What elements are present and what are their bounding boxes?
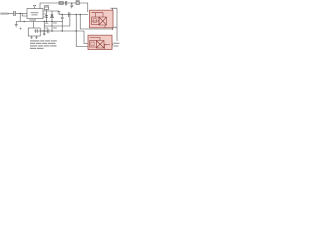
label below U1 xyxy=(30,19,37,20)
wire C7 down xyxy=(44,17,70,26)
wire drop x44 xyxy=(43,22,45,36)
rectifier module xyxy=(92,17,100,25)
node J14 xyxy=(44,21,45,22)
node J12 xyxy=(71,2,72,3)
resistor R2 xyxy=(76,1,79,4)
wire out bottom xyxy=(104,44,113,46)
node J6 xyxy=(76,14,77,15)
transformer box xyxy=(28,28,40,36)
label pin ticks xyxy=(45,23,48,24)
capacitor C9 xyxy=(35,36,37,38)
wire bottom bus xyxy=(16,21,63,23)
capacitor C3 xyxy=(65,1,67,5)
node J1 xyxy=(20,13,21,14)
node J9 xyxy=(112,44,113,45)
node J2 xyxy=(24,21,25,22)
diode D1 xyxy=(51,11,54,22)
capacitor C4 xyxy=(70,3,73,8)
wire box top xyxy=(33,22,35,29)
wire to IC xyxy=(16,13,27,15)
wire drop s1 xyxy=(104,25,106,28)
wire feedback xyxy=(40,31,88,44)
label vout xyxy=(113,43,119,44)
diode D2 xyxy=(59,2,63,5)
wire out drop xyxy=(111,41,113,49)
inner wires 2 xyxy=(90,38,107,45)
node J13 xyxy=(51,30,52,31)
wire AC lower xyxy=(22,14,27,17)
wire stub top box xyxy=(112,8,114,10)
node J5 xyxy=(62,14,63,15)
label rtn xyxy=(113,27,117,28)
node J8 xyxy=(44,30,45,31)
node J15 xyxy=(112,28,113,29)
pin stub top xyxy=(33,5,35,9)
wire drop x80 xyxy=(79,15,81,30)
wire rtn xyxy=(80,28,112,30)
capacitor C7 xyxy=(69,12,70,17)
node J3 xyxy=(46,21,47,22)
op-amp U1 xyxy=(27,9,43,19)
wire drop x76 xyxy=(76,15,89,47)
caption text xyxy=(30,40,57,49)
wire out rail xyxy=(111,8,118,41)
wire secondary top xyxy=(59,14,88,16)
capacitor C8 xyxy=(30,36,32,38)
label R3 xyxy=(53,22,57,23)
wire R1 chain xyxy=(46,10,48,22)
wire AC top xyxy=(9,13,14,15)
optocoupler U2 xyxy=(90,41,97,48)
bridge X xyxy=(99,17,107,25)
pins right xyxy=(43,11,59,17)
capacitor C10 xyxy=(34,29,48,33)
node J11 xyxy=(76,30,77,31)
ground xyxy=(15,22,18,28)
capacitor C6 xyxy=(61,15,64,32)
node J7 xyxy=(80,14,81,15)
node J4 xyxy=(51,21,52,22)
capacitor C11 xyxy=(48,29,49,33)
label R4 xyxy=(53,27,57,28)
highlighted block feedback xyxy=(88,35,112,49)
inner wires xyxy=(92,13,104,21)
capacitor C1 xyxy=(14,11,15,16)
node J10 xyxy=(62,30,63,31)
wire out s2 xyxy=(104,45,110,49)
wire top rail xyxy=(40,3,88,12)
bridge X2 xyxy=(96,41,104,49)
wire D1 down xyxy=(51,22,53,32)
input label text xyxy=(0,13,9,15)
highlighted block secondary xyxy=(90,10,114,28)
wire drop xyxy=(19,14,21,22)
capacitor C5 xyxy=(58,11,61,15)
capacitor C2 xyxy=(45,16,48,18)
resistor R1 xyxy=(44,7,49,10)
plus mark xyxy=(20,28,22,30)
